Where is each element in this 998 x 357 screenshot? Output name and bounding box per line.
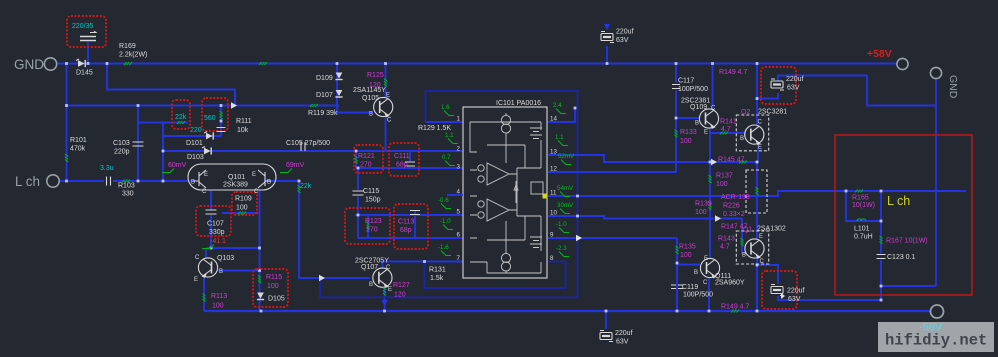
svg-text:1: 1 <box>457 116 461 123</box>
svg-text:R109: R109 <box>235 196 252 203</box>
wire Q103 base <box>218 270 260 272</box>
wire pin10 net <box>548 216 742 219</box>
svg-text:270: 270 <box>366 227 378 234</box>
svg-text:R169: R169 <box>119 43 136 50</box>
svg-text:22k: 22k <box>175 114 187 121</box>
wire pin12 net C117 <box>548 91 676 173</box>
svg-text:220uf: 220uf <box>787 288 805 295</box>
svg-text:-2.3: -2.3 <box>556 245 567 252</box>
svg-text:E: E <box>759 234 763 240</box>
svg-text:+58V: +58V <box>867 48 892 60</box>
wire pin13 net <box>548 155 757 162</box>
resistor R109 <box>238 212 246 215</box>
wire Q103 collector row <box>206 247 260 249</box>
wire 22k feedback vertical <box>299 181 370 278</box>
svg-text:10k: 10k <box>237 127 249 134</box>
svg-text:220p: 220p <box>114 149 130 156</box>
wire zobel return <box>881 285 936 287</box>
resistor R101 <box>65 154 68 162</box>
svg-text:2: 2 <box>457 146 461 153</box>
svg-text:C: C <box>711 106 716 112</box>
svg-text:C105 27p/500: C105 27p/500 <box>286 140 330 147</box>
resistor R133 <box>675 130 678 138</box>
svg-text:R133: R133 <box>680 129 697 136</box>
inductor L101 <box>857 219 866 221</box>
wire clamp vertical <box>162 123 164 182</box>
svg-text:-1.0: -1.0 <box>440 218 451 225</box>
wire Q109 base <box>676 117 700 119</box>
resistor R165 <box>855 190 863 193</box>
wire bottom cap branch <box>757 265 778 284</box>
svg-text:C111: C111 <box>394 153 410 160</box>
svg-text:E: E <box>252 172 256 178</box>
svg-text:R127: R127 <box>393 282 410 289</box>
wire pin14 stub <box>548 108 575 122</box>
svg-text:4.7: 4.7 <box>720 244 730 251</box>
svg-text:22k: 22k <box>300 183 312 190</box>
wire C115 chain <box>357 168 359 190</box>
svg-text:R129 1.5K: R129 1.5K <box>418 125 451 132</box>
svg-text:E: E <box>204 172 208 178</box>
watermark hifidiy.net <box>878 322 994 353</box>
wire C107 chain <box>210 190 212 210</box>
svg-text:13: 13 <box>550 149 557 156</box>
svg-text:R145 47: R145 47 <box>718 157 745 164</box>
svg-text:C: C <box>760 259 765 265</box>
wire pin3 net <box>356 167 463 169</box>
wire loop under IC <box>425 262 566 289</box>
wire Q103 emitter to bus <box>203 276 205 312</box>
wire R109 row <box>222 212 260 214</box>
op-amp IC U101 PA0016 body <box>463 107 548 278</box>
svg-text:220/35: 220/35 <box>72 23 94 30</box>
svg-text:B: B <box>369 282 373 288</box>
svg-text:2SA1145Y: 2SA1145Y <box>353 87 386 94</box>
svg-text:63V: 63V <box>787 85 800 92</box>
svg-text:R139: R139 <box>695 201 712 208</box>
svg-text:100: 100 <box>680 252 692 259</box>
svg-text:11: 11 <box>550 190 557 197</box>
svg-text:100: 100 <box>212 303 224 310</box>
svg-text:R226: R226 <box>723 203 740 210</box>
diode D145 <box>76 59 86 67</box>
wire feedback box <box>320 91 578 297</box>
svg-text:0.7uH: 0.7uH <box>854 234 873 241</box>
svg-text:100: 100 <box>716 181 728 188</box>
wire C119 vertical <box>676 238 678 311</box>
svg-text:2SA960Y: 2SA960Y <box>715 280 745 287</box>
resistor R169 <box>124 62 132 65</box>
svg-text:63V: 63V <box>616 37 629 44</box>
wire top cap drop <box>606 46 608 64</box>
resistor R143 <box>741 238 744 246</box>
svg-text:12: 12 <box>550 166 557 173</box>
resistor R141 <box>720 132 728 135</box>
svg-text:B: B <box>740 136 744 142</box>
svg-text:B: B <box>695 121 699 127</box>
wire pin5 net <box>355 214 463 216</box>
capacitor C103 <box>133 142 144 146</box>
svg-text:3.3u: 3.3u <box>100 165 114 172</box>
magenta reference labels <box>168 69 928 311</box>
resistor R135 <box>676 246 679 254</box>
diode D109 <box>335 73 342 81</box>
transistor Q101 2SK389 dual JFET <box>188 164 276 190</box>
svg-text:Q107: Q107 <box>361 264 378 271</box>
wire bottom bus <box>204 310 931 312</box>
svg-text:6: 6 <box>457 232 461 239</box>
wire output pin11 <box>548 191 966 196</box>
svg-text:220: 220 <box>190 127 202 134</box>
svg-text:R125: R125 <box>367 72 384 79</box>
svg-text:E: E <box>758 145 762 151</box>
capacitor C123 <box>877 255 886 259</box>
capacitor C113 <box>410 211 420 215</box>
svg-text:560: 560 <box>204 115 216 122</box>
svg-text:60mV: 60mV <box>168 162 187 169</box>
transistor Q2 2SC3281 <box>745 125 764 144</box>
svg-text:C: C <box>387 118 392 124</box>
svg-text:0.33×2: 0.33×2 <box>723 211 745 218</box>
wire pin1 stub <box>426 121 464 123</box>
svg-text:Q105: Q105 <box>362 95 379 102</box>
wire Q111 collector <box>708 278 710 311</box>
transistor Q105 2SA1145Y <box>374 97 393 116</box>
svg-text:ACR-139: ACR-139 <box>721 194 750 201</box>
svg-text:0.7: 0.7 <box>442 154 451 161</box>
wire C123 chain <box>880 221 882 253</box>
capacitor C111 <box>405 162 415 166</box>
dashed box Q2 <box>736 115 768 151</box>
capacitor 220/10 cap <box>217 128 226 132</box>
svg-text:R115: R115 <box>266 274 282 281</box>
svg-text:2SK389: 2SK389 <box>223 182 248 189</box>
wire C103 vertical <box>137 106 139 182</box>
svg-text:C: C <box>195 255 200 261</box>
wire Q2 emitter <box>757 145 759 163</box>
svg-text:63V: 63V <box>616 339 629 346</box>
wire Q111 base <box>677 264 700 266</box>
svg-text:100: 100 <box>680 138 692 145</box>
wire 22k branch <box>138 122 188 124</box>
white component labels <box>70 29 916 346</box>
svg-text:2.4: 2.4 <box>553 102 562 109</box>
svg-text:C: C <box>386 265 391 271</box>
svg-text:B: B <box>219 269 223 275</box>
svg-text:54mV: 54mV <box>557 185 574 192</box>
diode D107 <box>335 90 342 98</box>
port L ch input <box>15 174 59 189</box>
svg-text:1.1: 1.1 <box>445 132 454 139</box>
wire pin9 net <box>548 237 677 239</box>
svg-text:330: 330 <box>122 191 134 198</box>
wire Q101 right gate <box>264 180 299 182</box>
capacitor C119 <box>671 285 683 289</box>
wire pin2 net <box>163 150 463 152</box>
wire bus cap drop <box>605 311 607 329</box>
svg-text:R121: R121 <box>358 153 375 160</box>
svg-text:hifidiy.net: hifidiy.net <box>885 332 987 350</box>
wire diode column D109 D107 <box>337 64 373 113</box>
diode D101 <box>204 132 214 140</box>
svg-text:10: 10 <box>550 210 557 217</box>
port GND right <box>930 67 959 98</box>
svg-text:R135: R135 <box>679 244 696 251</box>
svg-text:9: 9 <box>550 232 554 239</box>
wire D101 row <box>163 135 221 137</box>
cyan value labels <box>72 23 312 190</box>
svg-text:2SA1302: 2SA1302 <box>757 226 786 233</box>
resistor R113 <box>203 294 206 302</box>
wire output network <box>846 191 881 221</box>
capacitor 220uf right-top <box>771 79 784 90</box>
wire mid rail <box>67 105 340 107</box>
port +58V <box>867 48 908 70</box>
svg-text:150p: 150p <box>365 197 381 204</box>
resistor R167 <box>880 236 883 244</box>
resistor 22k <box>177 121 185 124</box>
svg-text:Q103: Q103 <box>217 255 234 262</box>
capacitor 3.3u cap <box>107 177 111 186</box>
wire step to mid rail <box>107 64 235 106</box>
wire pin7 stub <box>425 261 464 263</box>
resistor R125 <box>384 79 387 87</box>
wire C111 stubs <box>409 151 411 161</box>
svg-text:Q2: Q2 <box>741 109 750 116</box>
svg-text:100P/500: 100P/500 <box>683 292 713 299</box>
svg-text:R113: R113 <box>211 293 227 300</box>
svg-text:220uf: 220uf <box>616 29 634 36</box>
svg-text:R149 4.7: R149 4.7 <box>721 304 750 311</box>
svg-text:10(1W): 10(1W) <box>852 202 875 209</box>
node pin11 yellow marker <box>543 194 548 199</box>
transistor Q111 2SA960Y <box>700 258 719 277</box>
wire Q2 collector rail <box>756 64 758 126</box>
svg-text:IC101 PA0016: IC101 PA0016 <box>496 100 541 107</box>
svg-text:4.7: 4.7 <box>721 126 731 133</box>
big red selection box <box>835 135 972 295</box>
svg-text:2SC3281: 2SC3281 <box>758 109 787 116</box>
svg-text:D145: D145 <box>76 70 93 77</box>
svg-text:-1.6: -1.6 <box>438 244 449 251</box>
resistor R145 <box>739 161 747 164</box>
capacitor C107 <box>206 210 217 214</box>
svg-text:R119 39k: R119 39k <box>308 110 338 117</box>
wire Q109 collector <box>712 64 714 110</box>
svg-text:R123: R123 <box>365 218 382 225</box>
wire Q107 collector to loop <box>383 262 425 269</box>
svg-text:100P/500: 100P/500 <box>678 86 708 93</box>
capacitor C115 <box>353 191 364 195</box>
svg-text:1.6: 1.6 <box>441 104 450 111</box>
green voltage annotations <box>438 102 575 257</box>
wire R121 vertical <box>355 151 357 168</box>
svg-text:5: 5 <box>457 209 461 216</box>
svg-text:14: 14 <box>550 116 557 123</box>
capacitor 220uf top <box>601 32 614 43</box>
wire arrows <box>231 24 785 306</box>
svg-text:100: 100 <box>267 283 279 290</box>
wire C113 stubs <box>414 210 416 215</box>
capacitor C117 <box>672 85 680 89</box>
wire Q105 collector <box>385 117 387 152</box>
resistor 560 <box>220 111 223 119</box>
svg-text:C: C <box>202 189 207 195</box>
port -58V <box>931 305 944 318</box>
capacitor C105 <box>301 142 305 151</box>
svg-text:E: E <box>388 287 392 293</box>
resistor 22k fb <box>298 185 301 193</box>
svg-text:30mV: 30mV <box>557 202 574 209</box>
transistor Q107 2SC2705Y <box>373 268 392 287</box>
svg-text:B: B <box>742 253 746 259</box>
svg-text:R143: R143 <box>718 236 735 243</box>
wire R115 D105 vertical <box>259 190 261 311</box>
diode D105 <box>257 293 264 301</box>
dashed box ACR-139 R226 <box>746 170 767 213</box>
capacitor 220/35 <box>80 31 96 41</box>
wire GND top rail <box>57 63 897 65</box>
wire Q105 emitter R125 <box>385 64 387 98</box>
svg-text:B: B <box>694 270 698 276</box>
wire input L ch <box>60 180 105 182</box>
transistor Q103 <box>198 258 217 277</box>
svg-text:C: C <box>254 189 259 195</box>
svg-text:E: E <box>704 130 708 136</box>
svg-text:C117: C117 <box>678 78 694 85</box>
svg-text:C103: C103 <box>113 140 130 147</box>
resistor R139 <box>709 202 712 210</box>
svg-text:E: E <box>386 93 390 99</box>
resistor R103 <box>122 180 130 183</box>
svg-text:7: 7 <box>457 255 461 262</box>
wire Q109 emitter chain <box>709 129 711 258</box>
resistor R137 <box>709 175 712 183</box>
svg-text:R131: R131 <box>429 267 446 274</box>
svg-text:52mV: 52mV <box>558 153 575 160</box>
resistor R149 <box>731 310 739 313</box>
capacitor 220uf bottom <box>600 331 613 342</box>
svg-text:220uf: 220uf <box>615 330 633 337</box>
svg-text:470k: 470k <box>70 146 86 153</box>
svg-text:69mV: 69mV <box>286 162 305 169</box>
svg-text:L ch: L ch <box>15 174 40 189</box>
wire 560 chain <box>220 106 222 137</box>
IC pin numbers <box>457 116 558 263</box>
wire Q107 emitter <box>384 288 386 312</box>
svg-text:220uf: 220uf <box>786 76 804 83</box>
svg-text:R149 4.7: R149 4.7 <box>719 69 748 76</box>
dashed box Q1 <box>736 231 768 264</box>
svg-text:68p: 68p <box>396 162 408 169</box>
resistor R127 <box>383 288 386 296</box>
svg-text:C107: C107 <box>207 221 224 228</box>
svg-text:R165: R165 <box>852 195 869 202</box>
svg-text:100: 100 <box>236 205 248 212</box>
wire 220/35 cap stub <box>87 42 89 64</box>
transistor pin letters <box>191 93 765 294</box>
svg-text:Q109: Q109 <box>690 104 707 111</box>
svg-text:R137: R137 <box>716 173 733 180</box>
svg-text:L ch: L ch <box>887 194 910 208</box>
svg-text:2.2k(2W): 2.2k(2W) <box>119 52 147 59</box>
resistor R226 <box>756 187 759 195</box>
svg-text:C119: C119 <box>682 284 698 291</box>
wire top cap branch <box>757 93 778 99</box>
wire GND right rail <box>935 79 937 286</box>
svg-text:R103: R103 <box>118 183 135 190</box>
svg-text:L101: L101 <box>854 226 870 233</box>
svg-text:R101: R101 <box>70 137 87 144</box>
wire Q1 base drop <box>742 219 745 254</box>
svg-text:Q101: Q101 <box>228 174 245 181</box>
svg-text:8: 8 <box>550 255 554 262</box>
svg-text:-0.6: -0.6 <box>438 197 449 204</box>
wire pin6 net <box>358 237 463 239</box>
svg-text:120: 120 <box>394 292 406 299</box>
transistor Q109 2SC2381 <box>699 109 718 128</box>
svg-text:C113: C113 <box>398 219 414 226</box>
resistor tick top bus <box>259 62 267 65</box>
wire R101 branch vertical <box>66 64 68 182</box>
svg-text:GND: GND <box>947 75 959 99</box>
svg-text:D103: D103 <box>187 154 204 161</box>
svg-text:68p: 68p <box>400 227 412 234</box>
svg-text:3: 3 <box>457 164 461 171</box>
svg-text:270: 270 <box>360 162 372 169</box>
svg-text:D107: D107 <box>316 92 333 99</box>
svg-text:E: E <box>704 256 708 262</box>
svg-text:D105: D105 <box>268 296 285 303</box>
svg-text:R167 10(1W): R167 10(1W) <box>886 238 928 245</box>
wire R123 vertical <box>367 215 369 238</box>
svg-text:C: C <box>758 120 763 126</box>
resistor R123 <box>367 222 370 230</box>
resistor R119 <box>310 104 318 107</box>
svg-text:1.1: 1.1 <box>555 134 564 141</box>
svg-text:E: E <box>194 277 198 283</box>
wire R141 row <box>710 133 745 137</box>
svg-text:Q1: Q1 <box>743 227 752 234</box>
svg-text:GND: GND <box>14 57 44 72</box>
svg-text:C: C <box>703 280 708 286</box>
svg-text:-41.1: -41.1 <box>210 238 226 245</box>
resistor R121 <box>355 156 358 164</box>
svg-text:C115: C115 <box>363 188 379 195</box>
svg-text:-1.0: -1.0 <box>556 221 567 228</box>
port GND left <box>14 57 57 72</box>
svg-text:330p: 330p <box>209 229 225 236</box>
svg-text:R111: R111 <box>236 118 252 125</box>
svg-text:D109: D109 <box>316 75 333 82</box>
transistor Q1 2SA1302 <box>745 239 764 258</box>
red highlight boxes <box>67 16 797 309</box>
svg-text:63V: 63V <box>788 296 801 303</box>
resistor R115 <box>258 275 261 283</box>
wire pin4 stub <box>447 194 463 196</box>
wire Q1 collector <box>756 258 758 311</box>
svg-text:B: B <box>369 112 373 118</box>
capacitor 220uf right-bottom <box>771 285 784 296</box>
svg-text:R141: R141 <box>720 119 737 126</box>
wire ACR Q1 emitter <box>756 162 758 239</box>
svg-text:100: 100 <box>695 209 707 216</box>
svg-text:1.5k: 1.5k <box>430 275 444 282</box>
svg-text:D101: D101 <box>186 140 203 147</box>
svg-text:B: B <box>191 180 195 186</box>
diode D103 <box>202 147 212 155</box>
svg-text:C123 0.1: C123 0.1 <box>887 254 916 261</box>
